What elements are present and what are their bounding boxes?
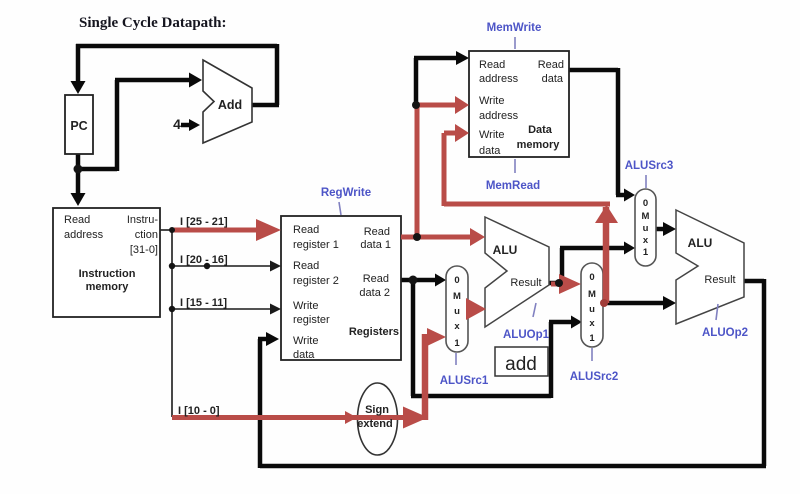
- svg-text:Result: Result: [704, 274, 735, 286]
- svg-text:PC: PC: [70, 119, 87, 133]
- svg-text:Write: Write: [293, 335, 318, 347]
- svg-text:MemRead: MemRead: [486, 180, 540, 192]
- svg-text:ALUOp2: ALUOp2: [702, 327, 748, 339]
- svg-text:register 2: register 2: [293, 275, 339, 287]
- svg-text:RegWrite: RegWrite: [321, 187, 371, 199]
- svg-text:0: 0: [589, 272, 594, 283]
- svg-text:Sign: Sign: [365, 404, 389, 416]
- svg-text:data 2: data 2: [359, 287, 390, 299]
- svg-text:ALUSrc3: ALUSrc3: [625, 160, 674, 172]
- svg-text:M: M: [453, 291, 461, 302]
- svg-text:data: data: [293, 349, 315, 361]
- svg-text:Read: Read: [293, 260, 319, 272]
- svg-text:[31-0]: [31-0]: [130, 244, 158, 256]
- svg-text:M: M: [642, 211, 650, 222]
- svg-text:register: register: [293, 314, 330, 326]
- svg-text:Result: Result: [510, 277, 541, 289]
- svg-text:Read: Read: [64, 214, 90, 226]
- svg-text:Read: Read: [538, 59, 564, 71]
- svg-text:Read: Read: [479, 59, 505, 71]
- svg-text:ALUSrc1: ALUSrc1: [440, 375, 489, 387]
- svg-text:x: x: [589, 318, 595, 329]
- svg-text:I [10 - 0]: I [10 - 0]: [178, 405, 220, 417]
- svg-text:ction: ction: [135, 229, 158, 241]
- svg-text:1: 1: [454, 338, 460, 349]
- svg-text:address: address: [479, 73, 519, 85]
- svg-text:MemWrite: MemWrite: [487, 22, 542, 34]
- svg-text:I [15 - 11]: I [15 - 11]: [180, 297, 227, 309]
- svg-text:4: 4: [173, 116, 181, 132]
- svg-text:Write: Write: [479, 129, 504, 141]
- svg-text:1: 1: [589, 333, 595, 344]
- svg-text:Read: Read: [293, 224, 319, 236]
- svg-text:1: 1: [643, 247, 649, 258]
- svg-text:address: address: [64, 229, 104, 241]
- svg-text:0: 0: [454, 275, 459, 286]
- svg-text:M: M: [588, 289, 596, 300]
- svg-text:Read: Read: [363, 273, 389, 285]
- svg-text:u: u: [454, 306, 460, 317]
- svg-text:memory: memory: [517, 139, 561, 151]
- svg-text:Data: Data: [528, 124, 553, 136]
- svg-text:add: add: [505, 354, 537, 375]
- svg-text:ALU: ALU: [493, 243, 518, 257]
- svg-text:Read: Read: [364, 226, 390, 238]
- svg-text:Instru-: Instru-: [127, 214, 159, 226]
- svg-text:Registers: Registers: [349, 326, 399, 338]
- svg-text:Add: Add: [218, 98, 242, 112]
- svg-text:x: x: [643, 235, 649, 246]
- svg-text:Single Cycle Datapath:: Single Cycle Datapath:: [79, 15, 227, 31]
- svg-text:data: data: [479, 145, 501, 157]
- svg-text:0: 0: [643, 198, 648, 209]
- svg-text:data: data: [542, 73, 564, 85]
- svg-text:ALU: ALU: [688, 236, 713, 250]
- svg-text:memory: memory: [86, 281, 130, 293]
- svg-text:Write: Write: [479, 95, 504, 107]
- svg-text:u: u: [589, 304, 595, 315]
- svg-text:I [20 - 16]: I [20 - 16]: [180, 254, 228, 266]
- svg-text:I [25 - 21]: I [25 - 21]: [180, 216, 228, 228]
- svg-text:ALUOp1: ALUOp1: [503, 329, 550, 341]
- svg-text:register 1: register 1: [293, 239, 339, 251]
- svg-text:data 1: data 1: [360, 239, 391, 251]
- svg-text:x: x: [454, 321, 460, 332]
- svg-text:Write: Write: [293, 300, 318, 312]
- svg-text:ALUSrc2: ALUSrc2: [570, 371, 619, 383]
- svg-text:address: address: [479, 110, 519, 122]
- svg-text:extend: extend: [357, 418, 392, 430]
- svg-text:u: u: [643, 223, 649, 234]
- svg-text:Instruction: Instruction: [79, 268, 136, 280]
